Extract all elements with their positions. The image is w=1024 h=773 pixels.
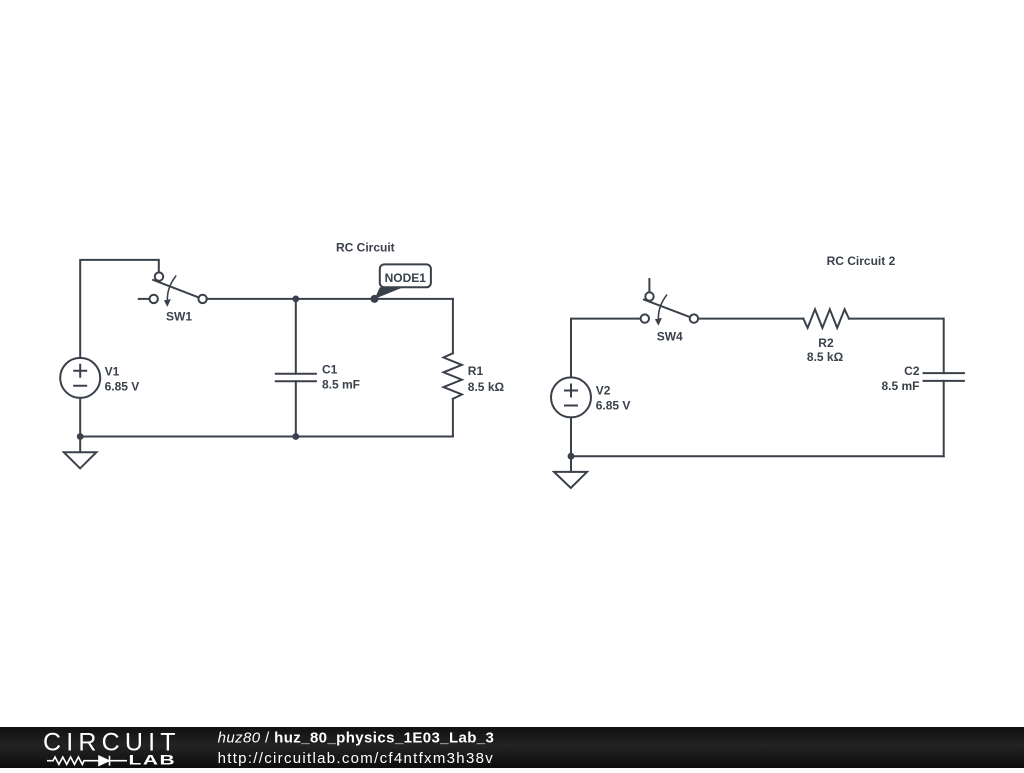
svg-text:RC Circuit 2: RC Circuit 2 <box>827 254 896 268</box>
wire V2 top to SW4 left throw <box>571 319 641 378</box>
svg-text:NODE1: NODE1 <box>385 271 427 285</box>
wire R2 to C2 top <box>849 319 944 374</box>
svg-text:RC Circuit: RC Circuit <box>336 240 395 254</box>
svg-text:R2: R2 <box>818 336 834 350</box>
node NODE1 flag <box>371 264 431 303</box>
junction V2 bottom <box>568 453 575 460</box>
svg-text:V1: V1 <box>105 364 120 378</box>
logo resistor-diode glyph <box>47 756 127 766</box>
svg-text:6.85 V: 6.85 V <box>105 379 140 393</box>
svg-text:8.5 mF: 8.5 mF <box>322 377 360 391</box>
svg-text:SW4: SW4 <box>657 330 683 344</box>
svg-text:LAB: LAB <box>129 752 177 768</box>
switch SW4 <box>641 279 699 344</box>
wire SW4 common to R2 <box>698 318 803 320</box>
svg-text:8.5 mF: 8.5 mF <box>881 379 919 393</box>
svg-text:C2: C2 <box>904 364 920 378</box>
wire V1 top to SW1 throw <box>80 260 159 358</box>
junction C1 top <box>292 296 299 303</box>
footer bar <box>0 727 1024 768</box>
switch SW1 <box>139 272 207 323</box>
svg-text:8.5 kΩ: 8.5 kΩ <box>468 380 505 394</box>
wire bottom right circuit <box>571 455 944 457</box>
capacitor C1 <box>276 299 360 437</box>
voltage source V1 <box>60 358 139 437</box>
resistor R2 <box>803 309 849 364</box>
svg-text:8.5 kΩ: 8.5 kΩ <box>807 350 844 364</box>
svg-text:6.85 V: 6.85 V <box>596 399 631 413</box>
ground left <box>64 437 97 469</box>
wire bottom left circuit <box>80 436 453 438</box>
resistor R1 <box>444 299 505 437</box>
ground right <box>554 456 587 488</box>
capacitor C2 <box>881 364 963 456</box>
svg-text:huz80 / huz_80_physics_1E03_La: huz80 / huz_80_physics_1E03_Lab_3 <box>218 730 495 747</box>
wire SW1 common to R1 top <box>207 298 453 300</box>
svg-text:R1: R1 <box>468 364 484 378</box>
svg-text:C1: C1 <box>322 363 338 377</box>
svg-text:SW1: SW1 <box>166 309 192 323</box>
svg-text:V2: V2 <box>596 383 611 397</box>
junction V1 bottom <box>77 433 84 440</box>
junction C1 bottom <box>292 433 299 440</box>
voltage source V2 <box>551 377 630 456</box>
svg-text:http://circuitlab.com/cf4ntfxm: http://circuitlab.com/cf4ntfxm3h38v <box>218 750 494 767</box>
